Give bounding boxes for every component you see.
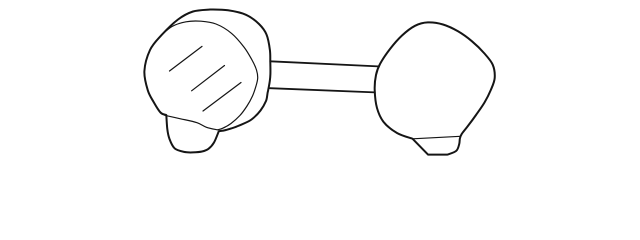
glass hatch line 2	[192, 66, 225, 91]
glass hatch line 3	[203, 83, 241, 112]
cover tab top line	[413, 136, 461, 139]
glass hatch line 1	[170, 46, 203, 71]
mirror glass (lens) outline	[161, 21, 257, 130]
connecting arm bottom line	[270, 88, 375, 92]
mirror cover (right blob) outline with bottom tab	[375, 22, 495, 154]
mirror head outer housing outline (with mounting tab)	[144, 10, 270, 153]
connecting arm top line	[270, 61, 378, 66]
mirror glass bottom crease line	[165, 115, 217, 130]
